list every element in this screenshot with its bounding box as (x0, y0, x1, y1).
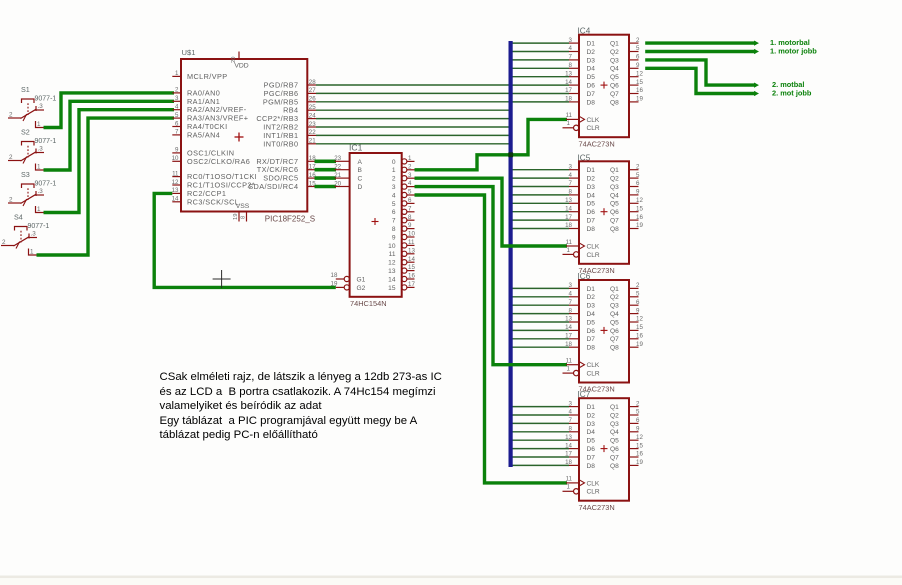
svg-text:Q2: Q2 (610, 49, 619, 56)
svg-text:21: 21 (334, 172, 341, 179)
pins 8,19 VSS (bottom) (233, 203, 250, 222)
svg-text:OSC2/CLKO/RA6: OSC2/CLKO/RA6 (187, 157, 250, 166)
svg-text:Q6: Q6 (610, 446, 619, 453)
svg-text:CLR: CLR (587, 125, 600, 132)
wire bus to IC7 D6 (511, 448, 569, 450)
svg-text:8: 8 (408, 214, 412, 221)
svg-text:Q6: Q6 (610, 328, 619, 335)
svg-text:CLR: CLR (587, 371, 600, 378)
svg-text:7: 7 (408, 205, 412, 212)
svg-text:7: 7 (392, 218, 396, 225)
wire bus to IC7 D1 (511, 406, 569, 408)
svg-text:D4: D4 (587, 311, 596, 318)
svg-text:0: 0 (392, 159, 396, 166)
svg-text:Q4: Q4 (610, 66, 619, 73)
svg-text:3: 3 (175, 95, 179, 102)
svg-text:15: 15 (408, 264, 415, 271)
svg-text:9077-1: 9077-1 (35, 96, 57, 103)
svg-text:C: C (358, 176, 363, 183)
svg-text:D: D (358, 184, 363, 191)
svg-text:2: 2 (636, 400, 640, 407)
svg-text:12: 12 (636, 197, 643, 204)
svg-text:15: 15 (636, 79, 643, 86)
svg-text:11: 11 (566, 239, 573, 246)
svg-text:1: 1 (567, 484, 571, 491)
svg-text:18: 18 (565, 459, 572, 466)
svg-text:4: 4 (569, 172, 573, 179)
svg-text:Q1: Q1 (610, 286, 619, 293)
svg-text:9: 9 (175, 147, 179, 154)
wire bus to IC4 D2 (511, 51, 569, 53)
wire PIC pin 18 to IC1 A (315, 160, 337, 164)
svg-text:3: 3 (392, 184, 396, 191)
svg-text:D6: D6 (587, 446, 596, 453)
svg-text:U$1: U$1 (182, 48, 196, 57)
svg-text:2: 2 (9, 154, 13, 161)
svg-text:Q8: Q8 (610, 345, 619, 352)
svg-text:3: 3 (569, 163, 573, 170)
svg-text:D5: D5 (587, 438, 596, 445)
wire bus to IC6 D4 (511, 313, 569, 315)
svg-text:8: 8 (569, 62, 573, 69)
svg-text:1: 1 (392, 167, 396, 174)
IC IC4 74AC273N octal flip-flop (563, 27, 644, 149)
svg-text:5: 5 (175, 112, 179, 119)
svg-text:4: 4 (392, 192, 396, 199)
switch S2 (9077-1 pushbutton) (8, 128, 56, 171)
wire IC1 O1 to IC4 CLK (415, 119, 568, 169)
svg-text:13: 13 (388, 268, 396, 275)
switch S1 (9077-1 pushbutton) (8, 85, 56, 128)
wire bus to IC4 D1 (511, 42, 569, 44)
wire PIC pin 15 to IC1 D (315, 185, 337, 189)
svg-text:Q7: Q7 (610, 91, 619, 98)
annotation text block (160, 370, 442, 443)
svg-text:2: 2 (636, 282, 640, 289)
svg-text:6: 6 (175, 120, 179, 127)
svg-text:23: 23 (334, 155, 341, 162)
svg-text:D5: D5 (587, 319, 596, 326)
svg-text:Q3: Q3 (610, 421, 619, 428)
svg-text:Q5: Q5 (610, 201, 619, 208)
svg-text:D8: D8 (587, 99, 596, 106)
wire bus to IC5 D2 (511, 177, 569, 179)
svg-text:Q8: Q8 (610, 463, 619, 470)
svg-text:14: 14 (388, 276, 396, 283)
svg-text:RA5/AN4: RA5/AN4 (187, 130, 220, 139)
svg-text:17: 17 (565, 451, 572, 458)
svg-text:14: 14 (565, 324, 572, 331)
svg-text:14: 14 (408, 256, 415, 263)
svg-text:A: A (358, 159, 363, 166)
wire bus to IC5 D5 (511, 202, 569, 204)
svg-text:Q8: Q8 (610, 99, 619, 106)
svg-text:2. mot jobb: 2. mot jobb (772, 89, 812, 98)
wire S3 pin1 to PIC RA2 (44, 110, 175, 213)
wire bus to IC4 D8 (511, 101, 569, 103)
svg-text:2: 2 (175, 87, 179, 94)
wire bus to IC7 D7 (511, 456, 569, 458)
svg-text:D2: D2 (587, 176, 596, 183)
wire RB7 (PIC pin 28) to bus (316, 84, 511, 86)
svg-text:.3: .3 (38, 188, 44, 195)
svg-text:74HC154N: 74HC154N (350, 299, 387, 308)
svg-text:1: 1 (567, 247, 571, 254)
svg-text:14: 14 (565, 205, 572, 212)
svg-text:Q2: Q2 (610, 176, 619, 183)
svg-text:CLR: CLR (587, 252, 600, 259)
svg-text:Q1: Q1 (610, 404, 619, 411)
svg-text:2: 2 (392, 176, 396, 183)
svg-text:17: 17 (408, 281, 415, 288)
PIC left pins (172, 70, 257, 206)
svg-text:9077-1: 9077-1 (28, 223, 50, 230)
svg-text:2: 2 (2, 239, 6, 246)
wire bus to IC4 D5 (511, 76, 569, 78)
svg-text:S3: S3 (21, 170, 30, 179)
svg-text:9077-1: 9077-1 (35, 138, 57, 145)
svg-text:Q5: Q5 (610, 438, 619, 445)
svg-text:D7: D7 (587, 91, 596, 98)
wire bus to IC5 D4 (511, 194, 569, 196)
svg-text:D1: D1 (587, 167, 596, 174)
wire bus to IC5 D1 (511, 169, 569, 171)
svg-text:RC3/SCK/SCL: RC3/SCK/SCL (187, 197, 239, 206)
svg-text:1: 1 (175, 70, 179, 77)
svg-text:D4: D4 (587, 66, 596, 73)
svg-text:Q2: Q2 (610, 294, 619, 301)
svg-text:SDA/SDI/RC4: SDA/SDI/RC4 (248, 182, 298, 191)
svg-text:27: 27 (309, 87, 316, 94)
wire S1 pin1 to PIC RA0 (44, 93, 175, 128)
svg-text:5: 5 (636, 291, 640, 298)
svg-text:CLK: CLK (587, 362, 600, 369)
svg-text:13: 13 (565, 434, 572, 441)
svg-text:D8: D8 (587, 463, 596, 470)
svg-text:9: 9 (636, 62, 640, 69)
wire RB5 (PIC pin 26) to bus (316, 101, 511, 103)
wire bus to IC5 D8 (511, 228, 569, 230)
svg-text:12: 12 (636, 316, 643, 323)
svg-text:D3: D3 (587, 421, 596, 428)
svg-text:7: 7 (175, 129, 179, 136)
wire IC1 O2 to IC5 CLK (415, 178, 568, 246)
svg-text:1: 1 (567, 120, 571, 127)
wire bus to IC6 D3 (511, 304, 569, 306)
svg-text:6: 6 (636, 54, 640, 61)
svg-text:2: 2 (636, 163, 640, 170)
svg-text:5: 5 (636, 172, 640, 179)
svg-text:Q4: Q4 (610, 192, 619, 199)
svg-text:22: 22 (334, 164, 341, 171)
svg-text:D3: D3 (587, 57, 596, 64)
svg-text:18: 18 (565, 341, 572, 348)
wire RB0 (PIC pin 21) to bus (316, 143, 511, 145)
wire bus to IC5 D7 (511, 219, 569, 221)
PIC right pins (248, 79, 316, 191)
svg-text:D6: D6 (587, 209, 596, 216)
IC1 origin cross (372, 218, 379, 225)
svg-text:15: 15 (636, 205, 643, 212)
wire RB4 (PIC pin 25) to bus (316, 109, 511, 111)
svg-text:Q2: Q2 (610, 412, 619, 419)
svg-text:B: B (358, 167, 363, 174)
wire bus to IC6 D7 (511, 338, 569, 340)
svg-text:D7: D7 (587, 454, 596, 461)
svg-text:6: 6 (636, 417, 640, 424)
svg-text:16: 16 (636, 333, 643, 340)
svg-text:Q7: Q7 (610, 336, 619, 343)
svg-text:16: 16 (636, 214, 643, 221)
svg-text:D2: D2 (587, 49, 596, 56)
svg-text:16: 16 (636, 451, 643, 458)
svg-text:3: 3 (408, 172, 412, 179)
svg-text:VSS: VSS (236, 203, 250, 210)
svg-text:6: 6 (392, 209, 396, 216)
svg-text:23: 23 (309, 121, 316, 128)
svg-text:19: 19 (636, 459, 643, 466)
wire IC1 O4 to IC7 CLK (415, 195, 568, 483)
junction wire crossing bus (508, 152, 513, 157)
svg-text:.3: .3 (38, 103, 44, 110)
svg-text:MCLR/VPP: MCLR/VPP (187, 72, 228, 81)
svg-text:22: 22 (309, 129, 316, 136)
svg-text:1: 1 (30, 249, 34, 256)
wire PIC pin 17 to IC1 B (315, 168, 337, 172)
svg-text:4: 4 (175, 104, 179, 111)
svg-text:4: 4 (569, 45, 573, 52)
svg-text:8: 8 (569, 426, 573, 433)
svg-text:VDD: VDD (234, 63, 248, 70)
svg-text:D5: D5 (587, 201, 596, 208)
svg-text:13: 13 (172, 187, 179, 194)
svg-text:18: 18 (565, 96, 572, 103)
svg-text:19: 19 (636, 96, 643, 103)
svg-text:S4: S4 (14, 213, 23, 222)
svg-text:Q8: Q8 (610, 226, 619, 233)
svg-text:1: 1 (37, 164, 41, 171)
svg-text:7: 7 (569, 54, 573, 61)
IC IC7 74AC273N octal flip-flop (563, 390, 644, 512)
IC1 input pins A B C D (334, 155, 362, 191)
svg-text:13: 13 (408, 247, 415, 254)
svg-text:D8: D8 (587, 226, 596, 233)
svg-text:D2: D2 (587, 412, 596, 419)
svg-text:1: 1 (37, 206, 41, 213)
svg-text:S2: S2 (21, 128, 30, 137)
svg-text:Q3: Q3 (610, 303, 619, 310)
svg-text:19: 19 (233, 214, 239, 220)
wire bus to IC7 D8 (511, 464, 569, 466)
svg-text:1. motor jobb: 1. motor jobb (770, 47, 817, 56)
svg-text:14: 14 (565, 442, 572, 449)
svg-text:15: 15 (636, 324, 643, 331)
svg-text:19: 19 (636, 222, 643, 229)
svg-text:Q7: Q7 (610, 454, 619, 461)
wire bus to IC7 D3 (511, 422, 569, 424)
svg-text:D5: D5 (587, 74, 596, 81)
svg-text:10: 10 (388, 243, 396, 250)
svg-text:D3: D3 (587, 184, 596, 191)
wire bus to IC6 D5 (511, 321, 569, 323)
wire PIC pin13 RC2 to IC1 G2 enable (154, 193, 336, 287)
svg-text:2: 2 (636, 37, 640, 44)
wire bus to IC7 D5 (511, 439, 569, 441)
switch S3 (9077-1 pushbutton) (8, 170, 56, 213)
svg-text:17: 17 (565, 87, 572, 94)
svg-text:24: 24 (309, 112, 316, 119)
svg-text:D2: D2 (587, 294, 596, 301)
wire IC4 Q1 to net 1.motorbal (645, 41, 756, 44)
svg-text:12: 12 (636, 434, 643, 441)
U$1 origin cross (235, 133, 244, 142)
svg-text:25: 25 (309, 104, 316, 111)
svg-text:D1: D1 (587, 41, 596, 48)
svg-text:7: 7 (569, 180, 573, 187)
wire bus to IC5 D3 (511, 186, 569, 188)
svg-text:IC1: IC1 (349, 143, 363, 153)
svg-text:Q3: Q3 (610, 57, 619, 64)
wire IC4 Q4 to net 2.mot jobb (645, 68, 756, 93)
svg-text:CLK: CLK (587, 243, 600, 250)
svg-text:D4: D4 (587, 429, 596, 436)
svg-text:15: 15 (388, 285, 396, 292)
svg-text:INT0/RB0: INT0/RB0 (263, 139, 298, 148)
svg-text:D7: D7 (587, 218, 596, 225)
svg-text:3: 3 (569, 37, 573, 44)
wire bus to IC7 D4 (511, 431, 569, 433)
data bus (blue) (509, 41, 513, 467)
svg-text:Q3: Q3 (610, 184, 619, 191)
svg-text:4: 4 (408, 180, 412, 187)
svg-text:Q7: Q7 (610, 218, 619, 225)
svg-text:3: 3 (569, 400, 573, 407)
svg-text:.3: .3 (38, 146, 44, 153)
svg-text:5: 5 (636, 409, 640, 416)
svg-text:Q5: Q5 (610, 319, 619, 326)
wire S4 pin1 to PIC RA3 (37, 118, 175, 255)
svg-text:17: 17 (565, 214, 572, 221)
svg-text:Q4: Q4 (610, 311, 619, 318)
wire bus to IC4 D6 (511, 84, 569, 86)
svg-text:2: 2 (9, 197, 13, 204)
svg-text:6: 6 (408, 197, 412, 204)
svg-text:74AC273N: 74AC273N (579, 139, 615, 148)
svg-text:18: 18 (565, 222, 572, 229)
wire RB1 (PIC pin 22) to bus (316, 134, 511, 136)
svg-text:1: 1 (567, 366, 571, 373)
svg-text:11: 11 (408, 239, 415, 246)
IC1 output pins 0-15 (388, 155, 415, 292)
wire IC4 Q3 to net 2.motbal (645, 60, 756, 85)
svg-text:2: 2 (9, 112, 13, 119)
svg-text:12: 12 (636, 70, 643, 77)
svg-text:15: 15 (636, 442, 643, 449)
svg-text:7: 7 (569, 299, 573, 306)
wire bus to IC4 D4 (511, 67, 569, 69)
svg-text:13: 13 (565, 316, 572, 323)
svg-text:D6: D6 (587, 83, 596, 90)
wire bus to IC7 D2 (511, 414, 569, 416)
wire S2 pin1 to PIC RA1 (44, 101, 175, 170)
svg-text:Q1: Q1 (610, 41, 619, 48)
svg-text:Q6: Q6 (610, 209, 619, 216)
svg-text:8: 8 (392, 226, 396, 233)
wire bus to IC4 D3 (511, 59, 569, 61)
svg-text:1: 1 (37, 121, 41, 128)
svg-text:D4: D4 (587, 192, 596, 199)
svg-text:11: 11 (389, 251, 396, 258)
svg-text:16: 16 (636, 87, 643, 94)
svg-text:4: 4 (569, 409, 573, 416)
svg-text:9: 9 (392, 234, 396, 241)
svg-text:6: 6 (636, 299, 640, 306)
svg-text:20: 20 (334, 180, 341, 187)
wire RB6 (PIC pin 27) to bus (316, 92, 511, 94)
svg-text:G2: G2 (357, 285, 366, 292)
IC1 enable pins G1 G2 (331, 272, 366, 292)
svg-text:26: 26 (309, 96, 316, 103)
svg-text:1: 1 (408, 155, 412, 162)
svg-text:CLK: CLK (587, 117, 600, 124)
wire bus to IC4 D7 (511, 93, 569, 95)
wire bus to IC5 D6 (511, 211, 569, 213)
decoder IC1 74HC154N (331, 143, 416, 308)
svg-text:28: 28 (309, 79, 316, 86)
svg-text:11: 11 (172, 170, 179, 177)
wire bus to IC6 D8 (511, 346, 569, 348)
svg-text:18: 18 (331, 272, 338, 279)
wire RB3 (PIC pin 24) to bus (316, 118, 511, 120)
svg-text:13: 13 (565, 70, 572, 77)
svg-text:8: 8 (569, 307, 573, 314)
svg-text:5: 5 (636, 45, 640, 52)
microcontroller U$1 PIC18F252 (172, 48, 317, 224)
wire bus to IC6 D2 (511, 296, 569, 298)
svg-text:19: 19 (331, 281, 338, 288)
svg-text:D1: D1 (587, 286, 596, 293)
svg-text:7: 7 (569, 417, 573, 424)
svg-text:D7: D7 (587, 336, 596, 343)
svg-text:G1: G1 (357, 277, 366, 284)
svg-text:14: 14 (172, 196, 179, 203)
svg-text:5: 5 (392, 201, 396, 208)
IC IC6 74AC273N octal flip-flop (563, 272, 644, 394)
svg-text:11: 11 (566, 358, 573, 365)
svg-text:PIC18F252_S: PIC18F252_S (265, 215, 315, 224)
svg-text:74AC273N: 74AC273N (579, 503, 615, 512)
svg-text:D6: D6 (587, 328, 596, 335)
svg-text:D3: D3 (587, 303, 596, 310)
svg-text:9077-1: 9077-1 (35, 181, 57, 188)
status bar divider (0, 576, 902, 579)
svg-text:10: 10 (408, 231, 415, 238)
svg-text:8: 8 (569, 189, 573, 196)
svg-text:10: 10 (172, 155, 179, 162)
svg-text:Q4: Q4 (610, 429, 619, 436)
svg-text:Q5: Q5 (610, 74, 619, 81)
svg-text:8: 8 (241, 216, 247, 219)
svg-text:13: 13 (565, 197, 572, 204)
wire IC1 O3 to IC6 CLK (415, 187, 568, 365)
svg-text:4: 4 (569, 291, 573, 298)
svg-text:9: 9 (408, 222, 412, 229)
svg-text:19: 19 (636, 341, 643, 348)
svg-text:.3: .3 (31, 231, 37, 238)
svg-text:S1: S1 (21, 85, 30, 94)
wire RB2 (PIC pin 23) to bus (316, 126, 511, 128)
wire PIC pin 16 to IC1 C (315, 176, 337, 180)
